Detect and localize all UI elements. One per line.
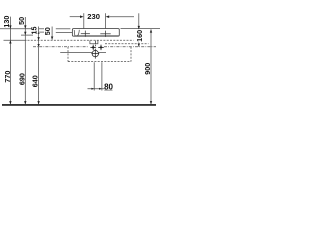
svg-text:80: 80 [104, 83, 113, 92]
node tap hole cross 1 [81, 31, 90, 37]
dimension 130/770 vertical V1 [9, 17, 11, 105]
wire drain pipe horizontal [60, 52, 92, 54]
wire top edge extension right [121, 28, 161, 30]
dimension 15/640 vertical V3 [38, 27, 40, 105]
svg-text:130: 130 [2, 16, 11, 28]
wire line F dashed bottom of apron [33, 46, 89, 48]
node extension line left tap hole [83, 13, 85, 28]
node tap hole cross 2 [100, 31, 110, 37]
dimension 900 vertical [150, 29, 152, 104]
wire line E 640-level solid [4, 39, 27, 41]
wire line B lower rim extension [39, 31, 44, 33]
dimension 230 line [70, 16, 81, 18]
svg-text:160: 160 [135, 30, 144, 42]
dimension 80 line [88, 88, 105, 90]
wire floor line [2, 104, 156, 106]
wire line D 690-level [21, 34, 33, 36]
node extension line right tap hole [104, 13, 106, 28]
svg-text:640: 640 [31, 75, 40, 87]
svg-text:15: 15 [30, 27, 39, 35]
basin outer outline [72, 29, 119, 37]
node supply star right [98, 45, 104, 51]
svg-text:230: 230 [87, 12, 100, 21]
svg-text:770: 770 [3, 71, 12, 83]
wire dashed installation box [67, 47, 69, 62]
svg-text:50: 50 [43, 27, 52, 35]
basin inner rim line [73, 30, 76, 36]
wire dashed flange-level line right [105, 43, 149, 45]
node supply star left [90, 45, 96, 51]
dimension 50/690 vertical V2 [24, 17, 26, 104]
node drain symbol circle cross [91, 49, 99, 59]
wire line A rim-level extension left [0, 28, 32, 30]
wire line E 640-level dashed [28, 39, 134, 41]
node drain flange rect [90, 40, 98, 43]
dimension 160 vertical [138, 13, 140, 29]
basin inner bottom [75, 35, 119, 37]
wire drain center line [94, 41, 96, 47]
dimension 80 extension lines [93, 62, 95, 90]
dimension 50 second vertical [51, 27, 53, 40]
basin bowl wall curve [78, 30, 80, 36]
svg-text:690: 690 [17, 73, 26, 85]
svg-text:900: 900 [143, 63, 152, 75]
svg-text:50: 50 [17, 17, 26, 25]
